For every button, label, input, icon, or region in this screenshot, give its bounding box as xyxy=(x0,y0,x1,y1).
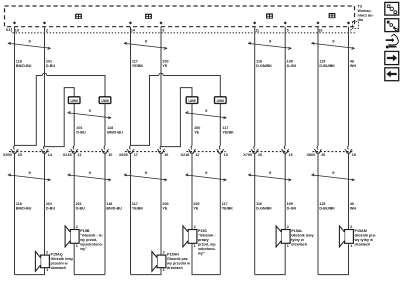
svg-text:2: 2 xyxy=(163,250,165,254)
svg-text:YE/BK: YE/BK xyxy=(223,131,235,135)
wire LF- door side xyxy=(14,153,16,274)
speaker P15AH (front woofer) xyxy=(157,255,166,268)
svg-text:11: 11 xyxy=(77,153,81,157)
wire tweeter 118 below box xyxy=(104,104,106,146)
svg-text:200: 200 xyxy=(194,126,200,130)
svg-text:wy przód,: wy przód, xyxy=(79,238,97,242)
svg-text:drzwiach: drzwiach xyxy=(51,266,68,270)
radio internal connector icon 1 xyxy=(75,14,82,19)
svg-text:17: 17 xyxy=(134,153,138,157)
svg-text:BN/D-BU: BN/D-BU xyxy=(16,64,32,68)
svg-text:P15AQ: P15AQ xyxy=(51,252,63,256)
svg-text:7: 7 xyxy=(350,28,352,32)
svg-text:116: 116 xyxy=(256,202,262,206)
wire woofer return loop xyxy=(15,268,45,275)
terminal 20 xyxy=(253,146,256,150)
svg-text:19: 19 xyxy=(15,28,19,32)
svg-text:2: 2 xyxy=(46,250,48,254)
twisted pair LF lower xyxy=(8,175,50,180)
wire RR- circuit 115 xyxy=(317,27,319,146)
svg-text:D-BU: D-BU xyxy=(76,131,86,135)
radio connector X2 dotted line xyxy=(13,32,356,34)
svg-text:1: 1 xyxy=(350,244,352,248)
inline box option code (tweeter feed 201) xyxy=(68,97,80,104)
svg-text:20: 20 xyxy=(258,153,262,157)
wire RR- door side xyxy=(317,153,319,274)
svg-text:2: 2 xyxy=(194,225,196,229)
svg-text:YE/BK: YE/BK xyxy=(132,64,144,68)
wire return loop xyxy=(318,243,349,274)
svg-text:D-BU/BK: D-BU/BK xyxy=(319,207,335,211)
svg-text:201: 201 xyxy=(46,60,52,64)
svg-text:UW6: UW6 xyxy=(71,99,78,103)
wire RF- door side xyxy=(130,153,132,274)
terminal 19 xyxy=(347,146,350,150)
node RR speaker - pin 16 terminal xyxy=(316,21,319,24)
svg-text:drzwiach: drzwiach xyxy=(167,266,184,270)
svg-text:116: 116 xyxy=(256,60,262,64)
svg-text:drzwiach: drzwiach xyxy=(291,243,308,247)
svg-text:117: 117 xyxy=(132,202,138,206)
speaker P15AQ (front woofer) xyxy=(41,255,50,268)
wire RF- circuit 117 radio to X600 xyxy=(130,27,132,146)
svg-text:dio: dio xyxy=(358,18,364,22)
svg-text:D-BU: D-BU xyxy=(76,207,86,211)
svg-text:2: 2 xyxy=(350,225,352,229)
svg-text:drzwiach: drzwiach xyxy=(355,243,372,247)
wire tweeter - door side xyxy=(219,153,221,274)
svg-text:YE: YE xyxy=(162,207,167,211)
twisted pair RF lower xyxy=(124,175,166,180)
svg-text:19: 19 xyxy=(288,153,292,157)
svg-text:D-BU/BK: D-BU/BK xyxy=(319,64,335,68)
terminal 10 xyxy=(103,146,106,150)
svg-text:sokotono-: sokotono- xyxy=(198,247,217,251)
svg-text:YE/BK: YE/BK xyxy=(132,207,144,211)
svg-text:5: 5 xyxy=(287,28,289,32)
wire LF+ circuit 201 radio to X300 xyxy=(44,27,46,146)
svg-text:BN/D-BU: BN/D-BU xyxy=(107,131,123,135)
svg-text:6: 6 xyxy=(162,28,164,32)
terminal 15 xyxy=(13,146,16,150)
twisted pair tweeter lower xyxy=(68,175,111,180)
svg-text:P15AH: P15AH xyxy=(167,252,179,256)
svg-text:D-GN: D-GN xyxy=(287,207,297,211)
svg-text:2: 2 xyxy=(76,225,78,229)
wire LF+ door side to woofer xyxy=(44,153,46,255)
svg-text:10: 10 xyxy=(108,153,112,157)
svg-text:D-BU: D-BU xyxy=(46,64,56,68)
terminal 17 xyxy=(129,146,132,150)
radio internal connector icon 2 xyxy=(145,14,152,19)
terminal 13 xyxy=(218,146,221,150)
svg-text:"Głośnik -: "Głośnik - xyxy=(198,234,216,238)
svg-text:117: 117 xyxy=(223,126,229,130)
wire LF- circuit 118 radio to X300 xyxy=(14,27,16,146)
branch RF+ to tweeter: junction and riser xyxy=(161,88,192,147)
twisted pair RF upper xyxy=(124,43,166,48)
svg-text:199: 199 xyxy=(287,60,293,64)
wire to tweeter line box xyxy=(163,76,220,97)
svg-text:D-GN/BK: D-GN/BK xyxy=(256,64,272,68)
svg-text:tylny w: tylny w xyxy=(291,238,304,242)
svg-text:X600: X600 xyxy=(119,153,128,157)
svg-text:46: 46 xyxy=(350,202,354,206)
radio internal connector icon 4 xyxy=(329,13,336,18)
svg-text:YE/BK: YE/BK xyxy=(222,207,234,211)
svg-text:wy": wy" xyxy=(79,247,87,251)
svg-text:YE: YE xyxy=(193,207,198,211)
twisted pair LR upper xyxy=(249,43,291,48)
svg-text:przód, wy-: przód, wy- xyxy=(198,243,217,247)
twisted pair tweeter mid xyxy=(68,113,111,118)
wire RR+ circuit 46 xyxy=(348,27,350,146)
twisted pair RR upper xyxy=(312,43,354,48)
connector X700 dotted line xyxy=(249,151,291,153)
dashed stub box at radio lower right xyxy=(353,22,359,29)
wire RF+ circuit 200 radio to X600 xyxy=(160,27,162,146)
svg-text:16: 16 xyxy=(318,28,322,32)
terminal 12 xyxy=(190,146,193,150)
wire to tweeter line box xyxy=(47,76,105,97)
terminal 16 xyxy=(159,146,162,150)
svg-text:X800: X800 xyxy=(307,153,316,157)
branch RF- to tweeter: junction and riser xyxy=(131,76,159,146)
speaker P15B (tweeter) xyxy=(70,230,79,244)
branch LF- to tweeter: junction and riser xyxy=(15,76,43,146)
node RF speaker + pin 6 terminal xyxy=(159,21,162,24)
twisted pair LR lower xyxy=(249,175,291,180)
svg-text:201: 201 xyxy=(76,202,82,206)
svg-text:1: 1 xyxy=(163,268,165,272)
svg-text:X218: X218 xyxy=(63,153,72,157)
radio internal connector icon 3 xyxy=(266,13,273,18)
svg-text:X300: X300 xyxy=(3,153,12,157)
inline box option code (tweeter feed 117) xyxy=(215,97,227,104)
inline box option code (tweeter feed 200) xyxy=(186,97,198,104)
svg-text:2: 2 xyxy=(287,225,289,229)
svg-text:13: 13 xyxy=(224,153,228,157)
speaker P15C (tweeter) xyxy=(188,230,197,244)
svg-text:200: 200 xyxy=(162,60,168,64)
connector X218 dotted line xyxy=(69,151,111,153)
wire LR+ circuit 199 xyxy=(284,27,286,146)
toolbar icon back (boxed left arrow) xyxy=(385,68,399,81)
svg-text:YE: YE xyxy=(194,131,199,135)
twisted pair RR lower xyxy=(312,175,354,180)
node LR speaker + pin 5 terminal xyxy=(284,21,287,24)
svg-text:Głośnik pra-: Głośnik pra- xyxy=(355,234,377,238)
terminal 20 xyxy=(316,146,319,150)
svg-text:Wzmac-: Wzmac- xyxy=(358,9,373,13)
svg-text:12: 12 xyxy=(195,153,199,157)
wire tweeter 201 below box xyxy=(73,104,75,146)
wire hop over +wire xyxy=(159,73,164,75)
wire tweeter - door side xyxy=(104,153,106,274)
terminal 14 xyxy=(43,146,46,150)
svg-text:201: 201 xyxy=(46,202,52,206)
wire LR- circuit 116 xyxy=(254,27,256,146)
svg-text:T3: T3 xyxy=(358,5,362,9)
svg-text:117: 117 xyxy=(132,60,138,64)
node LF speaker + pin 2 terminal xyxy=(43,21,46,24)
svg-text:11: 11 xyxy=(255,28,259,32)
svg-text:115: 115 xyxy=(319,202,325,206)
svg-text:15: 15 xyxy=(18,153,22,157)
svg-text:Głośnik lewy: Głośnik lewy xyxy=(51,257,74,261)
branch LF+ to tweeter: junction and riser xyxy=(45,88,75,147)
wire hop over +wire xyxy=(42,73,47,75)
svg-text:20: 20 xyxy=(321,153,325,157)
wire LR- door side xyxy=(254,153,256,274)
toolbar icon jump/return arrow xyxy=(386,34,399,48)
svg-text:"Głośnik - le-: "Głośnik - le- xyxy=(80,234,104,238)
wire tweeter 200 below box xyxy=(191,104,193,146)
svg-text:1: 1 xyxy=(76,244,78,248)
svg-text:46: 46 xyxy=(350,60,354,64)
svg-text:wysokotono-: wysokotono- xyxy=(79,243,104,247)
wire RF+ door side to woofer xyxy=(160,153,162,255)
svg-text:prawy: prawy xyxy=(198,238,210,242)
svg-text:UW6: UW6 xyxy=(101,99,108,103)
connector X600 dotted line xyxy=(125,151,167,153)
svg-text:P15B: P15B xyxy=(80,229,90,233)
svg-text:D-BU: D-BU xyxy=(46,207,56,211)
svg-text:wy przedni w: wy przedni w xyxy=(166,261,190,265)
svg-text:2: 2 xyxy=(46,28,48,32)
node LF speaker - pin 19 terminal xyxy=(13,21,16,24)
svg-text:201: 201 xyxy=(76,126,82,130)
svg-text:P15AM: P15AM xyxy=(355,229,367,233)
radio A11 component dashed box xyxy=(5,6,355,27)
inline box option code (tweeter feed 118) xyxy=(99,97,111,104)
connector X300 dotted line xyxy=(9,151,50,153)
svg-text:niacz au-: niacz au- xyxy=(358,14,375,18)
svg-text:118: 118 xyxy=(16,202,22,206)
wire tweeter 117 below box xyxy=(219,104,221,146)
svg-text:118: 118 xyxy=(106,202,112,206)
speaker P15AL (rear door) xyxy=(281,230,290,244)
svg-text:X700: X700 xyxy=(243,153,252,157)
wire RR+ door side to speaker xyxy=(348,153,350,229)
svg-text:1: 1 xyxy=(46,268,48,272)
svg-text:P15AL: P15AL xyxy=(291,229,303,233)
connector X218 dotted line xyxy=(187,151,226,153)
svg-text:UW6: UW6 xyxy=(188,99,195,103)
svg-text:P15C: P15C xyxy=(198,229,208,233)
toolbar icon forward (boxed right arrow) xyxy=(385,51,399,64)
svg-text:BN/D-BU: BN/D-BU xyxy=(16,207,32,211)
svg-text:200: 200 xyxy=(162,202,168,206)
svg-text:UW6: UW6 xyxy=(217,99,224,103)
svg-text:D-GN/BK: D-GN/BK xyxy=(256,207,272,211)
svg-text:19: 19 xyxy=(352,153,356,157)
node LR speaker - pin 11 terminal xyxy=(253,21,256,24)
svg-text:16: 16 xyxy=(164,153,168,157)
svg-text:BN/D-BU: BN/D-BU xyxy=(106,207,122,211)
twisted pair LF upper xyxy=(8,43,50,48)
node RF speaker - pin 14 terminal xyxy=(129,21,132,24)
svg-text:115: 115 xyxy=(319,60,325,64)
svg-text:wy": wy" xyxy=(197,252,205,256)
wire LR+ door side to speaker xyxy=(284,153,286,229)
svg-text:YE: YE xyxy=(162,64,167,68)
svg-text:wy tylny w: wy tylny w xyxy=(354,238,374,242)
svg-text:199: 199 xyxy=(287,202,293,206)
svg-text:118: 118 xyxy=(107,126,113,130)
svg-text:X218: X218 xyxy=(181,153,190,157)
svg-text:WH: WH xyxy=(350,64,356,68)
svg-text:1: 1 xyxy=(287,244,289,248)
toolbar icon zoom-in (boxed) xyxy=(385,19,399,32)
wire woofer return loop xyxy=(131,268,162,275)
toolbar icon zoom-out (boxed) xyxy=(385,2,399,15)
twisted pair tweeter lower xyxy=(186,175,226,180)
svg-text:117: 117 xyxy=(222,202,228,206)
svg-text:przedni w: przedni w xyxy=(51,261,68,265)
twisted pair tweeter mid xyxy=(186,113,226,118)
node RR speaker + pin 7 terminal xyxy=(347,21,350,24)
svg-text:200: 200 xyxy=(193,202,199,206)
connector X800 dotted line xyxy=(313,151,355,153)
svg-text:118: 118 xyxy=(16,60,22,64)
wire tweeter + door side xyxy=(73,153,75,229)
wire return loop xyxy=(255,243,286,274)
wire tweeter return loop xyxy=(192,243,220,274)
terminal 11 xyxy=(72,146,75,150)
svg-text:D-GN: D-GN xyxy=(287,64,297,68)
svg-text:Głośnik pra-: Głośnik pra- xyxy=(167,257,189,261)
svg-text:Głośnik lewy: Głośnik lewy xyxy=(291,234,314,238)
wire tweeter + door side xyxy=(191,153,193,229)
svg-text:1: 1 xyxy=(194,244,196,248)
wire tweeter return loop xyxy=(74,243,105,274)
speaker P15AM (rear door) xyxy=(345,230,354,244)
terminal 19 xyxy=(283,146,286,150)
svg-text:WH: WH xyxy=(350,207,356,211)
